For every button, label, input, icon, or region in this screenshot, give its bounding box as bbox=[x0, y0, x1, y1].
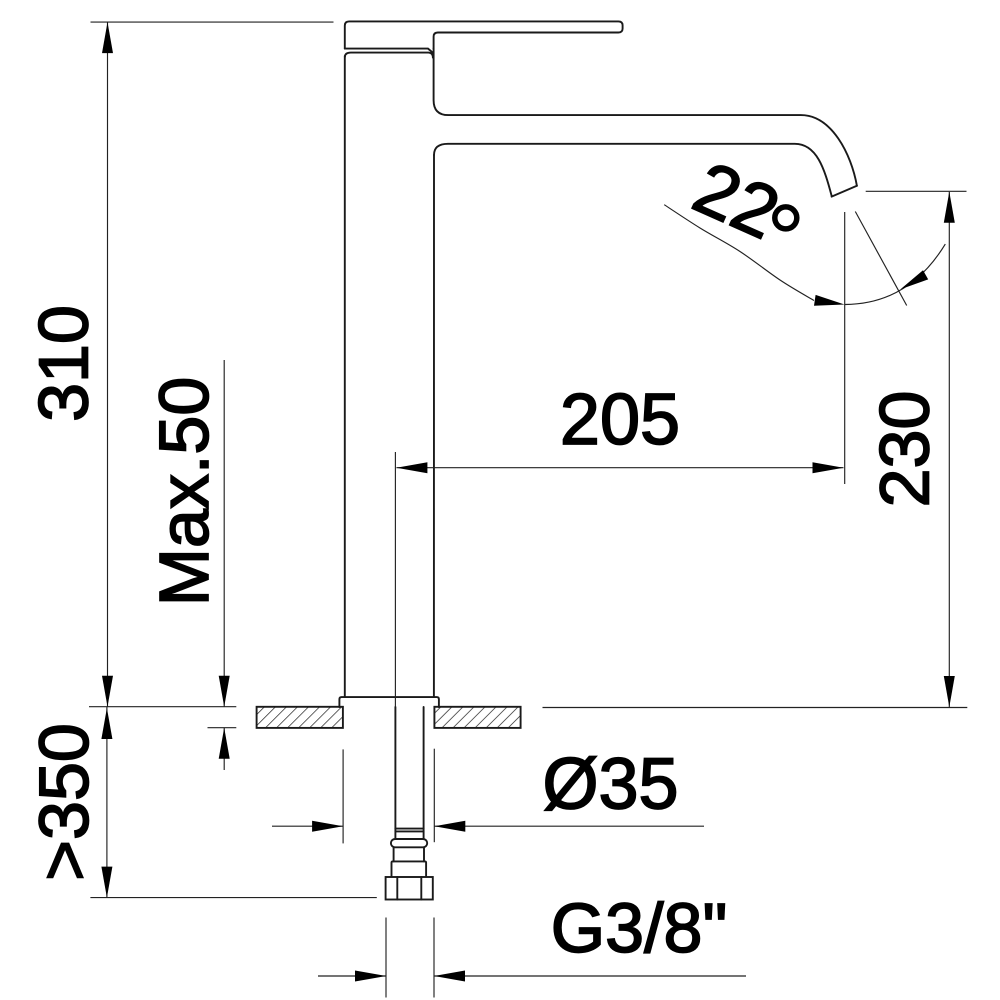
dimension 310 line bbox=[107, 22, 109, 707]
degree circle of 22 deg label bbox=[775, 207, 797, 229]
dimension G3/8 extension left bbox=[385, 918, 387, 998]
dimension >350 line bbox=[106, 707, 108, 898]
dimension O35 line left segment bbox=[272, 825, 343, 827]
svg-text:Max.50: Max.50 bbox=[145, 377, 223, 607]
shank collar line 1 bbox=[395, 828, 423, 830]
dimension 205 extension right (spout tip axis) bbox=[844, 212, 846, 484]
svg-text:Ø35: Ø35 bbox=[542, 745, 678, 825]
o-ring bulge bbox=[391, 839, 427, 847]
dimension Max.50 line lower bbox=[223, 728, 225, 770]
svg-text:205: 205 bbox=[560, 380, 680, 460]
dimension O35 extension right bbox=[433, 749, 435, 843]
angle arc arrow at vertical leg bbox=[814, 295, 845, 306]
svg-text:310: 310 bbox=[25, 305, 103, 422]
dimension G3/8 extension right bbox=[433, 918, 435, 998]
nut facet lines bbox=[397, 877, 421, 900]
extension line top (faucet top level) bbox=[91, 21, 334, 23]
body right edge bbox=[433, 155, 435, 697]
dimension O35 line right segment bbox=[434, 825, 704, 827]
angle dimension arc (right) bbox=[845, 244, 945, 304]
base flange bbox=[339, 697, 439, 707]
angle arc arrow at axis leg bbox=[901, 270, 929, 289]
svg-text:G3/8": G3/8" bbox=[551, 889, 728, 967]
spout tip cut bbox=[832, 186, 857, 197]
dimension Max.50 line upper bbox=[223, 360, 225, 707]
dimension O35 extension left bbox=[342, 749, 344, 843]
spout inner edge + top edge + outer bend bbox=[434, 49, 857, 186]
shank neck bbox=[394, 847, 424, 861]
dimension 205 line bbox=[396, 467, 843, 469]
angle leader curve (left) bbox=[664, 205, 814, 301]
body top edge bbox=[345, 53, 433, 58]
svg-text:>350: >350 bbox=[25, 723, 103, 881]
spout bottom edge and bend bbox=[434, 144, 832, 196]
dimension G3/8 line left segment bbox=[318, 975, 386, 977]
dimension 205 extension left (faucet axis) bbox=[394, 452, 396, 707]
extension tick counter bottom (Max.50) bbox=[208, 727, 237, 729]
dimension 230 line bbox=[948, 192, 950, 707]
extension line countertop right (230 bottom) bbox=[543, 707, 968, 709]
extension line countertop left bbox=[89, 706, 236, 708]
countertop right slab (hatched) bbox=[434, 707, 520, 728]
shank collar line 2 bbox=[395, 830, 423, 832]
supply shank tube left edge bbox=[394, 707, 396, 839]
shank step cylinder bbox=[392, 861, 427, 877]
extension line spout tip level (230 top) bbox=[866, 190, 967, 192]
body left edge bbox=[344, 56, 346, 697]
handle skirt bottom edge bbox=[345, 49, 433, 53]
G3/8 nut bbox=[386, 877, 433, 900]
supply shank tube right edge bbox=[423, 707, 425, 839]
svg-text:230: 230 bbox=[865, 391, 943, 508]
dimension G3/8 line right segment bbox=[434, 975, 746, 977]
angle: spout axis line bbox=[855, 212, 906, 306]
countertop left slab (hatched) bbox=[257, 707, 343, 728]
handle lever bbox=[345, 21, 623, 48]
extension line bottom (>350 lower level) bbox=[90, 897, 376, 899]
